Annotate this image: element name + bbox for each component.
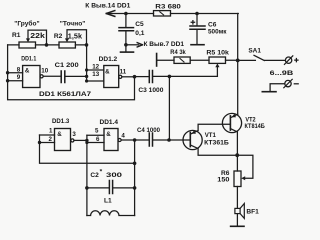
svg-text:&: & bbox=[25, 68, 30, 75]
svg-text:13: 13 bbox=[92, 71, 99, 78]
svg-text:BF1: BF1 bbox=[246, 208, 259, 215]
svg-text:&: & bbox=[57, 131, 62, 138]
svg-text:КТ814Б: КТ814Б bbox=[245, 123, 266, 130]
svg-text:5: 5 bbox=[95, 128, 99, 135]
svg-text:11: 11 bbox=[120, 68, 127, 75]
svg-text:6...9В: 6...9В bbox=[270, 70, 294, 77]
svg-text:2: 2 bbox=[49, 136, 53, 143]
svg-text:C3 1000: C3 1000 bbox=[138, 87, 163, 94]
svg-text:SA1: SA1 bbox=[248, 47, 261, 54]
svg-text:DD1 К561ЛА7: DD1 К561ЛА7 bbox=[39, 91, 91, 98]
svg-text:К Выв.14 DD1: К Выв.14 DD1 bbox=[85, 3, 130, 10]
svg-text:"Точно": "Точно" bbox=[60, 20, 86, 27]
svg-text:R3 680: R3 680 bbox=[155, 4, 181, 11]
svg-text:C2: C2 bbox=[90, 172, 99, 179]
svg-text:DD1.3: DD1.3 bbox=[52, 118, 70, 125]
svg-text:DD1.4: DD1.4 bbox=[100, 119, 119, 126]
svg-text:"Грубо": "Грубо" bbox=[14, 19, 39, 27]
svg-text:10: 10 bbox=[41, 67, 48, 74]
svg-text:4: 4 bbox=[121, 132, 125, 139]
svg-text:VT1: VT1 bbox=[205, 132, 217, 139]
svg-text:&: & bbox=[106, 131, 111, 138]
svg-text:C5: C5 bbox=[135, 21, 144, 28]
svg-text:C1 200: C1 200 bbox=[55, 62, 79, 69]
svg-text:6: 6 bbox=[96, 136, 100, 143]
svg-text:150: 150 bbox=[217, 176, 230, 183]
svg-text:R5 10k: R5 10k bbox=[206, 50, 229, 57]
svg-text:300: 300 bbox=[106, 172, 122, 179]
svg-text:R4 3k: R4 3k bbox=[170, 49, 186, 56]
svg-text:8: 8 bbox=[17, 66, 21, 73]
svg-text:3: 3 bbox=[72, 131, 76, 138]
svg-text:0,1: 0,1 bbox=[135, 30, 144, 37]
svg-text:L1: L1 bbox=[104, 197, 112, 204]
svg-text:R1: R1 bbox=[12, 32, 21, 39]
svg-text:&: & bbox=[105, 68, 110, 75]
svg-text:КТ361Б: КТ361Б bbox=[204, 140, 229, 147]
svg-text:DD1.1: DD1.1 bbox=[21, 55, 36, 62]
svg-text:12: 12 bbox=[92, 64, 99, 71]
svg-text:22k: 22k bbox=[30, 33, 45, 40]
svg-text:R2: R2 bbox=[54, 33, 63, 40]
svg-text:К Выв.7 DD1: К Выв.7 DD1 bbox=[144, 41, 185, 48]
svg-text:C4 1000: C4 1000 bbox=[137, 127, 160, 134]
svg-text:500мк: 500мк bbox=[208, 29, 227, 36]
svg-text:DD1.2: DD1.2 bbox=[99, 56, 118, 63]
svg-text:*: * bbox=[100, 169, 103, 176]
svg-text:9: 9 bbox=[17, 74, 21, 81]
svg-text:1: 1 bbox=[49, 128, 53, 135]
svg-text:1,5k: 1,5k bbox=[68, 33, 82, 40]
